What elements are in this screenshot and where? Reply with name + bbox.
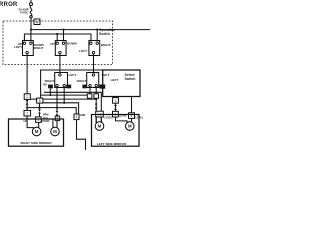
svg-text:DOWN: DOWN bbox=[67, 41, 78, 45]
svg-text:LEVEL: LEVEL bbox=[104, 117, 113, 120]
svg-text:LEFT: LEFT bbox=[102, 73, 110, 77]
svg-text:RIGHT: RIGHT bbox=[101, 43, 111, 47]
svg-text:BO: BO bbox=[43, 83, 47, 86]
svg-text:LEFT SIDE MIRROR: LEFT SIDE MIRROR bbox=[97, 142, 127, 146]
svg-text:UP: UP bbox=[24, 120, 28, 123]
svg-text:Switch: Switch bbox=[99, 32, 110, 36]
svg-text:LEFT: LEFT bbox=[111, 78, 119, 82]
svg-text:LEFT: LEFT bbox=[14, 45, 22, 49]
svg-text:M: M bbox=[98, 124, 102, 129]
svg-text:2: 2 bbox=[26, 95, 28, 99]
svg-text:8: 8 bbox=[39, 99, 41, 103]
svg-text:3: 3 bbox=[115, 99, 117, 103]
svg-text:UP: UP bbox=[50, 42, 54, 46]
svg-text:M: M bbox=[53, 129, 57, 134]
svg-text:RROR: RROR bbox=[0, 2, 18, 8]
svg-text:5: 5 bbox=[76, 115, 78, 119]
svg-text:RIGHT: RIGHT bbox=[77, 79, 87, 83]
svg-text:2: 2 bbox=[26, 112, 28, 116]
svg-text:BLK: BLK bbox=[43, 117, 48, 120]
svg-text:M: M bbox=[128, 124, 132, 129]
svg-text:RIGHT SIDE MIRROR: RIGHT SIDE MIRROR bbox=[20, 141, 52, 145]
svg-text:LEVEL: LEVEL bbox=[119, 114, 128, 117]
svg-text:FUSE: FUSE bbox=[20, 10, 28, 14]
svg-text:GND: GND bbox=[80, 114, 86, 117]
svg-text:RIGHT: RIGHT bbox=[34, 46, 44, 50]
svg-text:DOWN: DOWN bbox=[42, 120, 50, 123]
svg-text:LEFT: LEFT bbox=[79, 49, 87, 53]
svg-text:LEFT: LEFT bbox=[69, 73, 77, 77]
svg-text:A: A bbox=[36, 19, 39, 24]
svg-text:LEVEL: LEVEL bbox=[135, 117, 144, 120]
svg-text:M: M bbox=[35, 129, 39, 134]
svg-text:Switch: Switch bbox=[125, 77, 136, 81]
